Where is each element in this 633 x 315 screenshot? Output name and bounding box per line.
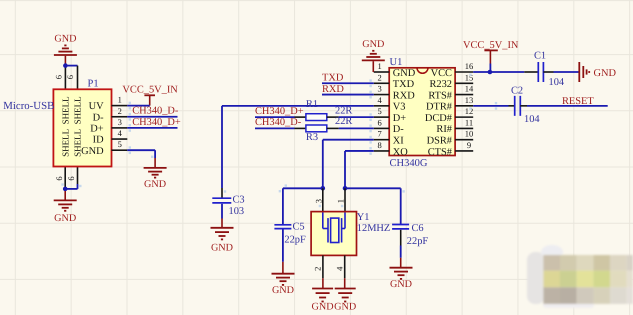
svg-text:7: 7: [377, 129, 381, 139]
svg-text:GND: GND: [54, 213, 76, 224]
svg-text:V3: V3: [393, 102, 406, 113]
svg-text:R232: R232: [429, 79, 452, 90]
svg-text:1: 1: [118, 95, 122, 105]
svg-text:CH340_D+: CH340_D+: [132, 117, 181, 128]
svg-text:1: 1: [377, 61, 381, 71]
svg-text:SHELL: SHELL: [60, 96, 70, 124]
svg-text:R1: R1: [306, 99, 318, 110]
svg-text:SHELL: SHELL: [73, 96, 83, 124]
svg-text:GND: GND: [144, 179, 166, 190]
svg-text:VCC: VCC: [431, 68, 452, 79]
svg-text:5: 5: [377, 106, 381, 116]
svg-text:C3: C3: [233, 195, 245, 206]
svg-text:12: 12: [465, 106, 474, 116]
svg-text:15: 15: [465, 72, 474, 82]
svg-text:D-: D-: [93, 112, 105, 123]
svg-text:4: 4: [118, 128, 123, 138]
svg-text:3: 3: [377, 84, 381, 94]
svg-text:CH340_D-: CH340_D-: [255, 117, 302, 128]
svg-text:CH340_D-: CH340_D-: [132, 106, 179, 117]
svg-text:6: 6: [65, 75, 75, 79]
svg-text:C1: C1: [534, 50, 546, 61]
svg-text:C6: C6: [412, 223, 424, 234]
svg-text:UV: UV: [89, 101, 105, 112]
svg-text:RXD: RXD: [393, 90, 415, 101]
svg-text:GND: GND: [390, 279, 412, 290]
svg-text:104: 104: [549, 77, 565, 88]
svg-text:U1: U1: [390, 57, 403, 68]
svg-text:22R: 22R: [335, 116, 352, 127]
svg-text:TXD: TXD: [322, 73, 344, 84]
svg-text:2: 2: [313, 267, 323, 271]
svg-text:GND: GND: [54, 33, 76, 44]
svg-text:22pF: 22pF: [284, 234, 306, 245]
svg-text:6: 6: [66, 176, 76, 180]
svg-text:GND: GND: [211, 243, 233, 254]
svg-text:C2: C2: [511, 86, 523, 97]
svg-text:GND: GND: [334, 302, 356, 313]
svg-text:C5: C5: [293, 222, 305, 233]
svg-text:TXD: TXD: [393, 79, 415, 90]
svg-text:RI#: RI#: [436, 124, 452, 135]
svg-text:CH340_D+: CH340_D+: [255, 106, 304, 117]
svg-text:22pF: 22pF: [407, 236, 429, 247]
svg-text:103: 103: [229, 206, 245, 217]
svg-text:13: 13: [465, 95, 474, 105]
svg-text:DCD#: DCD#: [425, 113, 452, 124]
svg-text:XO: XO: [393, 147, 409, 158]
svg-text:2: 2: [377, 72, 381, 82]
svg-text:4: 4: [377, 95, 382, 105]
svg-text:1: 1: [336, 199, 346, 203]
svg-text:R3: R3: [306, 132, 318, 143]
svg-text:GND: GND: [594, 68, 617, 79]
svg-text:RESET: RESET: [562, 96, 594, 107]
svg-text:XI: XI: [393, 135, 405, 146]
svg-text:GND: GND: [393, 68, 416, 79]
svg-text:104: 104: [524, 114, 540, 125]
svg-text:Y1: Y1: [357, 212, 370, 223]
svg-text:GND: GND: [312, 302, 334, 313]
svg-text:DTR#: DTR#: [426, 102, 452, 113]
svg-text:DSR#: DSR#: [427, 135, 452, 146]
svg-text:22R: 22R: [335, 106, 352, 117]
svg-text:16: 16: [465, 61, 474, 71]
svg-text:3: 3: [314, 199, 324, 203]
svg-text:SHELL: SHELL: [60, 129, 70, 157]
svg-text:GND: GND: [362, 39, 384, 50]
svg-text:6: 6: [54, 75, 64, 79]
svg-text:D-: D-: [393, 124, 405, 135]
svg-text:10: 10: [465, 129, 474, 139]
svg-text:14: 14: [465, 84, 474, 94]
svg-text:VCC_5V_IN: VCC_5V_IN: [122, 84, 178, 95]
svg-text:CH340G: CH340G: [390, 158, 428, 169]
svg-text:2: 2: [118, 106, 122, 116]
svg-text:RTS#: RTS#: [428, 90, 452, 101]
svg-text:5: 5: [118, 139, 122, 149]
svg-text:6: 6: [54, 176, 64, 180]
svg-text:P1: P1: [88, 78, 99, 89]
svg-text:6: 6: [377, 117, 381, 127]
svg-text:CTS#: CTS#: [428, 147, 452, 158]
svg-text:11: 11: [465, 117, 473, 127]
svg-text:GND: GND: [81, 146, 104, 157]
svg-text:ID: ID: [93, 135, 104, 146]
svg-text:D+: D+: [90, 124, 104, 135]
svg-text:D+: D+: [393, 113, 407, 124]
svg-text:12MHZ: 12MHZ: [357, 223, 390, 234]
svg-text:9: 9: [467, 140, 471, 150]
svg-text:GND: GND: [272, 285, 294, 296]
svg-text:Micro-USB: Micro-USB: [3, 100, 54, 112]
svg-text:RXD: RXD: [322, 84, 344, 95]
svg-text:3: 3: [118, 117, 122, 127]
svg-text:8: 8: [377, 140, 381, 150]
